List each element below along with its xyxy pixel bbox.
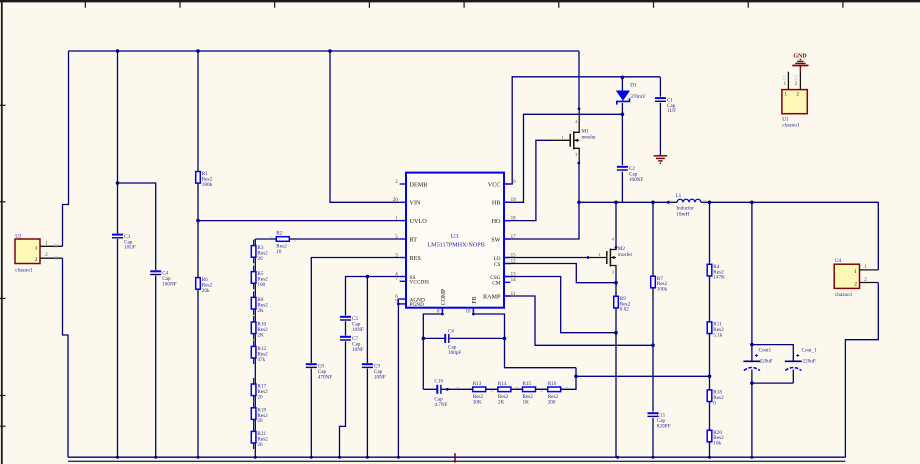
junction bbox=[614, 201, 618, 205]
junction bbox=[196, 219, 200, 223]
pin-end junction bbox=[441, 313, 444, 316]
svg-text:1UF: 1UF bbox=[667, 108, 676, 114]
resistor R19 bbox=[251, 402, 268, 426]
net tick (red mark below ground bus) bbox=[454, 453, 456, 462]
wire C1 top stub bbox=[659, 77, 661, 96]
svg-text:DEMB: DEMB bbox=[410, 181, 428, 188]
svg-text:30K: 30K bbox=[473, 399, 482, 405]
wire M1 source to SW bus bbox=[578, 163, 580, 203]
svg-text:11: 11 bbox=[511, 292, 516, 297]
svg-text:20: 20 bbox=[257, 256, 263, 262]
junction bbox=[422, 337, 426, 341]
svg-text:1K: 1K bbox=[523, 399, 530, 405]
svg-text:FB: FB bbox=[472, 296, 478, 303]
pin-end junction bbox=[446, 388, 449, 391]
bus junction bbox=[310, 456, 313, 459]
junction bbox=[574, 375, 578, 379]
wire ground column bbox=[397, 304, 399, 457]
svg-text:20: 20 bbox=[257, 442, 263, 448]
svg-text:10mH: 10mH bbox=[676, 211, 689, 217]
capacitor C11 bbox=[648, 412, 671, 429]
bus junction bbox=[708, 456, 711, 459]
bus junction bbox=[366, 456, 369, 459]
ground (power gnd under C1) bbox=[654, 156, 668, 164]
resistor R21 bbox=[251, 425, 268, 449]
bus junction bbox=[616, 456, 619, 459]
capacitor Cout_1 220uF bbox=[785, 347, 817, 370]
wire M2 drain feed bbox=[615, 202, 617, 247]
wire Cout_1 bottom stub bbox=[792, 370, 794, 384]
svg-text:10NF: 10NF bbox=[352, 327, 364, 333]
svg-text:147K: 147K bbox=[713, 275, 725, 281]
wire C4 column lower bbox=[155, 276, 157, 458]
svg-text:RT: RT bbox=[410, 236, 418, 243]
capacitor C10 bbox=[434, 379, 447, 408]
svg-text:L1: L1 bbox=[676, 193, 682, 199]
svg-text:1: 1 bbox=[854, 269, 857, 275]
junction bbox=[651, 201, 655, 205]
wire C5-C7 link bbox=[345, 321, 347, 335]
wire VCC wire bbox=[504, 77, 660, 184]
U3 pin 3 RES bbox=[395, 253, 421, 262]
resistor R12 bbox=[251, 340, 268, 364]
junction bbox=[116, 181, 120, 185]
wire UVLO wire bbox=[198, 220, 400, 222]
U3 pin 10 FB bbox=[466, 296, 478, 314]
wire R18-R20 link bbox=[709, 402, 711, 430]
junction bbox=[621, 76, 625, 80]
svg-text:3: 3 bbox=[612, 270, 614, 275]
svg-text:180k: 180k bbox=[202, 182, 213, 188]
svg-text:Cout_1: Cout_1 bbox=[802, 347, 818, 353]
wire R4 top bbox=[709, 202, 711, 264]
wire C9 branch lower bbox=[366, 369, 368, 458]
U3 pin 18 HO bbox=[492, 216, 517, 225]
bus junction bbox=[197, 456, 200, 459]
svg-text:COMP: COMP bbox=[441, 289, 447, 305]
resistor R14 bbox=[493, 381, 516, 405]
svg-text:RES: RES bbox=[410, 255, 422, 262]
U3 pin 15 LO bbox=[493, 253, 516, 262]
ground GND (top right, above U1) bbox=[792, 54, 808, 71]
junction bbox=[750, 343, 754, 347]
wire M1 drain feed bbox=[578, 51, 580, 109]
junction bbox=[196, 49, 200, 53]
wire R3-R21 column bbox=[254, 239, 256, 457]
junction bbox=[503, 337, 507, 341]
junction bbox=[708, 375, 712, 379]
transistor M2 (low-side mosfet) bbox=[588, 237, 632, 275]
resistor R16 bbox=[543, 381, 566, 405]
bus junction bbox=[254, 456, 257, 459]
svg-text:VCCDIS: VCCDIS bbox=[410, 280, 429, 286]
capacitor Cout1 220uF bbox=[743, 347, 772, 370]
wire AGND-PGND bracket bbox=[398, 299, 399, 304]
capacitor C4 bbox=[150, 270, 177, 287]
svg-text:17: 17 bbox=[511, 235, 516, 240]
pin-end junction bbox=[397, 303, 400, 306]
pin-end junction bbox=[587, 256, 590, 259]
resistor R17 bbox=[251, 378, 268, 402]
wire FB feedback line bbox=[576, 375, 710, 377]
U3 pin 1 UVLO bbox=[395, 216, 427, 225]
capacitor C7 bbox=[340, 336, 364, 353]
bus junction bbox=[154, 456, 157, 459]
svg-text:20: 20 bbox=[393, 198, 399, 203]
resistor R11 bbox=[707, 316, 724, 340]
pin-end junction bbox=[615, 246, 618, 249]
wire R20 to bus bbox=[709, 443, 711, 458]
resistor R18 bbox=[707, 384, 724, 408]
resistor R20 bbox=[707, 424, 724, 448]
svg-text:mosfet: mosfet bbox=[582, 134, 597, 141]
wire M2 source to R9 bbox=[615, 271, 617, 297]
wire C1 to GND bbox=[659, 103, 661, 155]
wire Cout top rail bbox=[752, 345, 793, 361]
svg-text:10UF: 10UF bbox=[124, 245, 136, 251]
wire bottom ground bus bbox=[68, 456, 845, 458]
svg-text:10: 10 bbox=[466, 310, 472, 315]
svg-text:0: 0 bbox=[713, 400, 716, 406]
U3 pin 5 RT bbox=[395, 235, 417, 244]
wire VIN drop to pin bbox=[330, 51, 400, 202]
svg-text:18: 18 bbox=[511, 216, 516, 221]
svg-text:20k: 20k bbox=[202, 288, 210, 294]
svg-text:UVLO: UVLO bbox=[410, 218, 428, 225]
resistor R6 bbox=[196, 272, 213, 296]
U3 pin 2 DEMB bbox=[395, 180, 427, 189]
pin-end junction bbox=[578, 107, 581, 110]
junction bbox=[328, 49, 332, 53]
U3 pin 19 HB bbox=[492, 198, 516, 207]
U3 pin 11 RAMP bbox=[483, 292, 516, 301]
svg-text:10: 10 bbox=[276, 249, 282, 255]
pin-end grid markers (light blue) bbox=[54, 76, 797, 391]
U3 pin 12 CS bbox=[494, 259, 516, 268]
wire bridge C3-C4 bbox=[118, 183, 156, 270]
svg-text:12: 12 bbox=[511, 259, 516, 264]
wire U4 pin2 to ground bus bbox=[845, 283, 878, 458]
svg-text:R13: R13 bbox=[473, 381, 482, 387]
bus junction bbox=[750, 456, 753, 459]
U3 pin 13 CSG bbox=[490, 272, 516, 281]
resistor R5 bbox=[251, 266, 268, 290]
svg-text:370mV: 370mV bbox=[630, 94, 646, 100]
pin-end junction bbox=[667, 201, 670, 204]
resistor R3 bbox=[251, 240, 268, 264]
svg-text:2: 2 bbox=[854, 282, 857, 288]
wire SW wire bbox=[504, 202, 579, 239]
svg-text:2K: 2K bbox=[257, 308, 264, 314]
wire LO wire bbox=[504, 257, 588, 259]
resistor R1 bbox=[196, 166, 213, 190]
svg-text:U3: U3 bbox=[451, 233, 459, 240]
resistor R10 bbox=[251, 316, 268, 340]
U3 pin 17 SW bbox=[491, 235, 516, 244]
connector U4 chazuo1 bbox=[834, 258, 878, 298]
svg-text:10NF: 10NF bbox=[352, 347, 364, 353]
junction bbox=[366, 275, 370, 279]
resistor R4 bbox=[707, 258, 725, 282]
wire R7 top bbox=[652, 202, 654, 276]
wire VIN top bus bbox=[69, 50, 580, 52]
svg-text:M2: M2 bbox=[618, 246, 626, 252]
svg-text:20: 20 bbox=[257, 418, 263, 424]
connector U2 chazuo1 bbox=[15, 233, 63, 273]
junction bbox=[708, 201, 712, 205]
svg-text:220uF: 220uF bbox=[760, 359, 773, 365]
resistor R7 bbox=[651, 270, 668, 294]
svg-text:CM: CM bbox=[492, 281, 501, 287]
pin-end junction bbox=[577, 162, 580, 165]
svg-text:220uF: 220uF bbox=[803, 359, 816, 365]
connector U1 chazuo1 bbox=[782, 71, 807, 129]
svg-text:3: 3 bbox=[575, 152, 577, 157]
svg-text:chazuo1: chazuo1 bbox=[782, 123, 800, 129]
svg-text:mosfet: mosfet bbox=[618, 251, 633, 258]
wire COMP rail bbox=[423, 308, 442, 390]
wire C2 to SW bus bbox=[621, 172, 623, 203]
U3 pin 8 COMP bbox=[437, 289, 447, 315]
svg-text:5.1k: 5.1k bbox=[713, 332, 722, 338]
svg-text:100pF: 100pF bbox=[448, 350, 461, 356]
svg-text:47k: 47k bbox=[257, 357, 265, 363]
wire Cout1 column lower bbox=[751, 370, 753, 458]
wire Cout1 column upper bbox=[751, 202, 753, 360]
resistor R9 bbox=[614, 290, 631, 314]
svg-text:HB: HB bbox=[492, 200, 501, 207]
wire D1 anode stub bbox=[621, 77, 623, 91]
junction bbox=[577, 201, 581, 205]
junction bbox=[614, 331, 618, 335]
U3 pin 7 VCCDIS bbox=[395, 277, 429, 286]
svg-text:RAMP: RAMP bbox=[483, 293, 501, 300]
svg-text:100NF: 100NF bbox=[162, 281, 177, 287]
capacitor C1 bbox=[655, 97, 676, 114]
junction bbox=[651, 344, 655, 348]
svg-text:U1: U1 bbox=[782, 116, 789, 122]
svg-text:2K: 2K bbox=[498, 399, 505, 405]
svg-text:100NF: 100NF bbox=[629, 177, 644, 183]
bus junction bbox=[338, 456, 341, 459]
svg-text:10k: 10k bbox=[713, 441, 721, 447]
svg-text:VCC: VCC bbox=[488, 181, 501, 188]
svg-text:10NF: 10NF bbox=[374, 374, 386, 380]
svg-text:R14: R14 bbox=[498, 381, 507, 387]
svg-text:470NF: 470NF bbox=[318, 374, 333, 380]
wire R1-R6 column bbox=[197, 51, 199, 457]
svg-text:4.7NF: 4.7NF bbox=[434, 402, 447, 408]
wire SS wire to C5 bbox=[346, 277, 400, 316]
svg-text:SW: SW bbox=[491, 236, 500, 243]
svg-text:2K: 2K bbox=[257, 332, 264, 338]
svg-text:C6: C6 bbox=[448, 328, 454, 334]
svg-text:1: 1 bbox=[35, 245, 38, 251]
wire R7 to C11 bbox=[652, 288, 654, 412]
wire C3 column upper bbox=[117, 51, 119, 234]
transistor M1 (high-side mosfet) bbox=[553, 109, 596, 163]
wire VOUT bus to U4 pin1 bbox=[705, 202, 879, 270]
pin-end junction bbox=[472, 313, 475, 316]
svg-text:Cout1: Cout1 bbox=[759, 347, 772, 353]
capacitor C9 bbox=[362, 363, 386, 380]
svg-text:U4: U4 bbox=[835, 258, 842, 264]
junction bbox=[621, 113, 625, 117]
svg-text:100k: 100k bbox=[657, 287, 668, 293]
wire D1 cathode to C2 bbox=[621, 103, 623, 165]
capacitor C3 bbox=[112, 234, 136, 251]
junction bbox=[116, 49, 120, 53]
svg-text:CS: CS bbox=[494, 262, 501, 268]
wire CSG wire bbox=[504, 277, 616, 333]
svg-text:C10: C10 bbox=[434, 379, 443, 385]
svg-text:200: 200 bbox=[548, 399, 556, 405]
bus junction bbox=[397, 456, 400, 459]
capacitor C6 bbox=[445, 328, 462, 356]
wire C6 wire bbox=[423, 337, 504, 339]
bus junction bbox=[652, 456, 655, 459]
U3 pin 20 VIN bbox=[393, 198, 421, 207]
svg-text:14: 14 bbox=[511, 278, 516, 283]
svg-text:R16: R16 bbox=[548, 381, 557, 387]
svg-text:chazuo1: chazuo1 bbox=[15, 267, 33, 273]
wire left drop to U2 pin1 bbox=[63, 51, 69, 246]
U3 pin 16 VCC bbox=[488, 180, 516, 189]
wire C9 branch upper bbox=[366, 277, 368, 364]
svg-text:2: 2 bbox=[35, 257, 38, 263]
wire RT wire bbox=[255, 238, 399, 240]
svg-text:LM5117PMHX/NOPB: LM5117PMHX/NOPB bbox=[427, 241, 485, 248]
capacitor C2 bbox=[617, 166, 644, 183]
wire R11-R18 link bbox=[709, 334, 711, 390]
wire C11 to bus bbox=[652, 418, 654, 457]
svg-text:GND: GND bbox=[793, 54, 807, 60]
wire bottom rail (second ground line) bbox=[68, 460, 845, 462]
junction bbox=[750, 381, 754, 385]
svg-text:16: 16 bbox=[511, 180, 516, 185]
wire R4-R11 link bbox=[709, 276, 711, 322]
svg-text:HO: HO bbox=[492, 218, 501, 225]
wire HO wire to M1 gate bbox=[504, 140, 553, 220]
U3 pin 9 PGND bbox=[395, 300, 424, 309]
wire C3 column lower bbox=[117, 239, 119, 457]
wire FB rail bbox=[473, 308, 576, 368]
U3 pin 14 CM bbox=[492, 278, 516, 287]
svg-text:820PF: 820PF bbox=[657, 423, 671, 429]
svg-text:VIN: VIN bbox=[410, 200, 422, 207]
diode D1 (schottky) bbox=[617, 82, 647, 104]
U3 pin 6 AGND bbox=[395, 295, 425, 304]
resistor R13 bbox=[468, 381, 491, 405]
capacitor C8 bbox=[306, 363, 333, 380]
wire RES wire upper bbox=[311, 258, 399, 364]
svg-text:D1: D1 bbox=[630, 82, 637, 88]
resistor R2 bbox=[271, 231, 294, 255]
svg-text:13: 13 bbox=[511, 272, 516, 277]
wire RES wire lower bbox=[310, 369, 312, 458]
U3 pin 4 SS bbox=[395, 272, 415, 281]
wire Cout bottom rail bbox=[752, 382, 793, 384]
wire R9 to bottom bus bbox=[615, 308, 617, 458]
op-amp U3 LM5117PMHX/NOPB controller body bbox=[406, 173, 504, 308]
wire SW bus left bbox=[579, 201, 670, 203]
svg-text:R2: R2 bbox=[276, 231, 282, 237]
svg-text:PGND: PGND bbox=[410, 302, 425, 308]
resistor R8 bbox=[251, 291, 268, 315]
svg-text:0.02: 0.02 bbox=[620, 307, 629, 313]
resistor R15 bbox=[518, 381, 541, 405]
wire compensation bottom branch bbox=[423, 368, 576, 390]
wire U2 pin2 drop bbox=[63, 258, 69, 457]
svg-text:R15: R15 bbox=[523, 381, 532, 387]
junction bbox=[614, 281, 618, 285]
svg-text:20: 20 bbox=[257, 394, 263, 400]
wire RAMP wire bbox=[504, 296, 653, 345]
wire HB wire bbox=[504, 114, 622, 202]
svg-text:19: 19 bbox=[511, 198, 516, 203]
wire C7 to bottom bus bbox=[340, 341, 346, 457]
wire CS wire bbox=[504, 264, 616, 283]
svg-text:U2: U2 bbox=[15, 233, 22, 239]
svg-text:chazuo1: chazuo1 bbox=[835, 292, 853, 298]
svg-text:100: 100 bbox=[257, 282, 265, 288]
capacitor C5 bbox=[340, 316, 364, 333]
inductor L1 10mH bbox=[670, 193, 708, 218]
bus junction bbox=[116, 456, 119, 459]
svg-text:M1: M1 bbox=[582, 128, 590, 134]
svg-text:15: 15 bbox=[511, 253, 516, 258]
junction bbox=[750, 201, 754, 205]
